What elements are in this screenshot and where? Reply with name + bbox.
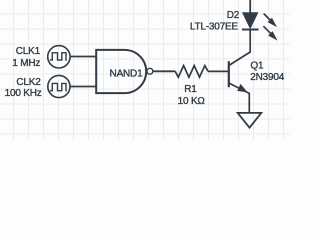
NAND gate NAND1 xyxy=(96,50,153,93)
Q1 emitter arrowhead xyxy=(238,85,247,92)
wire R1 to Q1 base xyxy=(208,70,229,72)
svg-text:10 KΩ: 10 KΩ xyxy=(178,96,206,107)
svg-text:1 MHz: 1 MHz xyxy=(12,58,40,69)
transistor Q1 xyxy=(229,30,250,113)
LED emission arrow 2 xyxy=(263,26,276,39)
LED emission arrow 1 xyxy=(264,14,276,27)
svg-text:100 KHz: 100 KHz xyxy=(5,88,42,99)
svg-text:CLK1: CLK1 xyxy=(16,46,41,57)
svg-text:R1: R1 xyxy=(184,84,197,95)
wire CLK1 to NAND input A xyxy=(70,56,96,58)
resistor R1 xyxy=(175,66,208,78)
svg-text:D2: D2 xyxy=(227,10,240,21)
clock source CLK2 xyxy=(48,75,70,97)
wire NAND output to R1 xyxy=(153,70,175,72)
svg-text:LTL-307EE: LTL-307EE xyxy=(190,22,239,33)
svg-text:CLK2: CLK2 xyxy=(16,77,41,88)
svg-text:Q1: Q1 xyxy=(250,60,264,71)
wire CLK2 to NAND input B xyxy=(70,86,96,88)
ground xyxy=(238,113,262,128)
clock source CLK1 xyxy=(48,46,70,68)
svg-text:NAND1: NAND1 xyxy=(110,68,144,79)
svg-text:2N3904: 2N3904 xyxy=(250,72,284,83)
LED D2 xyxy=(242,0,259,30)
